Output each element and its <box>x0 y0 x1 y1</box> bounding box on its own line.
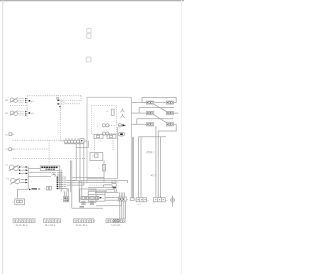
svg-text:M2: M2 <box>5 113 9 115</box>
svg-text:1L,1L,1L,L: 1L,1L,1L,L <box>16 223 29 227</box>
svg-text:a: a <box>97 125 99 127</box>
svg-text:N: N <box>85 141 87 143</box>
svg-text:a: a <box>147 200 149 202</box>
svg-text:<: < <box>12 201 14 204</box>
svg-text:(X)(1 ): (X)(1 ) <box>147 150 154 154</box>
svg-text:m: m <box>92 156 94 158</box>
svg-text:t7: t7 <box>117 181 120 184</box>
svg-text:P2: P2 <box>7 179 10 181</box>
svg-text:C2: C2 <box>5 149 9 151</box>
svg-text:≡( ( (: ≡( ( ( <box>151 173 157 177</box>
svg-text:n: n <box>103 198 105 200</box>
svg-text:x: x <box>61 199 63 201</box>
svg-text:n: n <box>31 181 33 183</box>
svg-text:1L,1L,1L,L: 1L,1L,1L,L <box>76 223 89 227</box>
svg-text:u: u <box>99 168 101 170</box>
svg-text:4L,U.U,L: 4L,U.U,L <box>45 223 56 227</box>
svg-text:LS-2: LS-2 <box>60 104 65 106</box>
svg-text:w1: w1 <box>31 101 35 103</box>
svg-text:D: D <box>107 111 109 113</box>
svg-text:b: b <box>166 200 168 202</box>
svg-text:M1: M1 <box>5 100 9 102</box>
svg-text:w2: w2 <box>31 113 35 115</box>
svg-text:e: e <box>127 199 129 201</box>
svg-text:P1: P1 <box>5 165 8 167</box>
svg-text:u.1: u.1 <box>138 204 142 206</box>
svg-text:U,U,U.L: U,U,U.L <box>112 223 122 227</box>
svg-text:L: L <box>44 189 46 191</box>
svg-text:E1: E1 <box>5 135 8 137</box>
